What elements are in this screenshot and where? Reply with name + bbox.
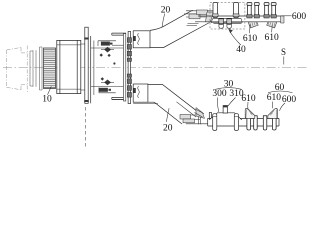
svg-text:S: S	[281, 47, 286, 57]
svg-text:610: 610	[264, 33, 279, 43]
svg-text:600: 600	[292, 12, 307, 22]
svg-text:610: 610	[241, 94, 256, 104]
svg-text:300: 300	[212, 89, 227, 99]
svg-text:610: 610	[267, 93, 282, 103]
svg-text:20: 20	[163, 123, 173, 133]
svg-text:10: 10	[42, 95, 52, 105]
svg-text:610: 610	[243, 34, 258, 44]
svg-text:60: 60	[275, 83, 285, 93]
svg-text:40: 40	[236, 45, 246, 55]
svg-text:20: 20	[161, 6, 171, 16]
